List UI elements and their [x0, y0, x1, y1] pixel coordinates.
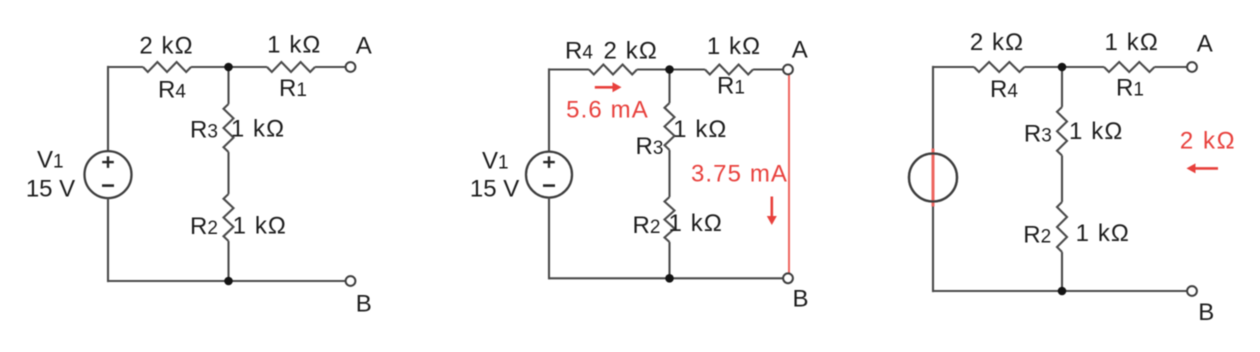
- svg-text:A: A: [1197, 31, 1213, 58]
- svg-text:3.75 mA: 3.75 mA: [691, 160, 788, 187]
- svg-text:1 kΩ: 1 kΩ: [233, 213, 287, 240]
- svg-text:R3: R3: [636, 133, 664, 160]
- svg-text:V1: V1: [37, 147, 64, 174]
- svg-text:15 V: 15 V: [26, 176, 75, 203]
- svg-text:1 kΩ: 1 kΩ: [231, 116, 285, 143]
- svg-text:2 kΩ: 2 kΩ: [1180, 128, 1236, 155]
- svg-text:R4: R4: [158, 77, 186, 104]
- svg-text:2 kΩ: 2 kΩ: [604, 38, 658, 65]
- svg-text:B: B: [1198, 299, 1214, 326]
- svg-text:B: B: [356, 291, 372, 318]
- svg-text:R4: R4: [990, 76, 1018, 103]
- svg-text:1 kΩ: 1 kΩ: [673, 116, 727, 143]
- svg-text:1 kΩ: 1 kΩ: [669, 210, 723, 237]
- svg-text:A: A: [792, 37, 808, 64]
- svg-text:B: B: [792, 286, 808, 313]
- svg-text:R4: R4: [565, 38, 593, 65]
- svg-text:2 kΩ: 2 kΩ: [970, 29, 1024, 56]
- svg-text:2 kΩ: 2 kΩ: [139, 33, 193, 60]
- svg-text:A: A: [356, 33, 372, 60]
- svg-text:R2: R2: [1023, 222, 1051, 249]
- svg-text:R3: R3: [190, 117, 218, 144]
- svg-text:V1: V1: [482, 148, 509, 175]
- svg-text:R1: R1: [717, 73, 745, 100]
- svg-text:1 kΩ: 1 kΩ: [1069, 118, 1123, 145]
- svg-text:R1: R1: [279, 75, 307, 102]
- svg-text:1 kΩ: 1 kΩ: [267, 32, 321, 59]
- svg-text:R1: R1: [1116, 75, 1144, 102]
- svg-text:5.6 mA: 5.6 mA: [566, 96, 649, 123]
- svg-text:R2: R2: [190, 213, 218, 240]
- svg-text:15 V: 15 V: [470, 176, 519, 203]
- svg-text:1 kΩ: 1 kΩ: [1076, 220, 1130, 247]
- svg-text:R2: R2: [633, 212, 661, 239]
- svg-text:R3: R3: [1024, 121, 1052, 148]
- svg-text:1 kΩ: 1 kΩ: [1105, 29, 1159, 56]
- svg-text:1 kΩ: 1 kΩ: [707, 33, 761, 60]
